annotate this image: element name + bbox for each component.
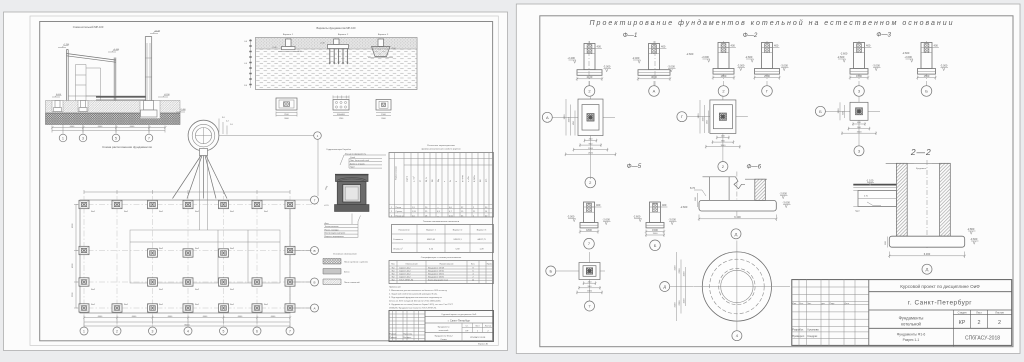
foundation elevation Ф-1 right <box>632 41 676 96</box>
svg-text:—: — <box>437 207 439 209</box>
svg-text:400: 400 <box>596 203 601 207</box>
plan row2 symbols <box>79 246 295 254</box>
svg-text:Грунт: Грунт <box>855 211 860 213</box>
svg-text:2: 2 <box>998 320 1001 326</box>
chimney plan circles <box>188 120 219 151</box>
svg-text:2100: 2100 <box>588 153 594 155</box>
svg-text:г. Санкт-Петербург: г. Санкт-Петербург <box>908 299 972 307</box>
plan bottom bubbles <box>80 327 294 335</box>
svg-text:-2.600: -2.600 <box>686 52 694 56</box>
svg-text:Д: Д <box>735 231 738 236</box>
svg-text:-2.600: -2.600 <box>633 215 641 219</box>
foundation elevation Ф-2 left <box>702 41 746 96</box>
notes <box>389 287 454 310</box>
svg-text:Песок намывной: Песок намывной <box>344 281 360 284</box>
svg-text:Куканова: Куканова <box>404 334 413 336</box>
svg-text:Серия 1.412: Серия 1.412 <box>399 268 411 270</box>
svg-text:-1.100: -1.100 <box>866 179 874 183</box>
elevation mark right ground <box>158 94 171 97</box>
svg-text:Фундамент 1Ф15: Фундамент 1Ф15 <box>428 270 445 273</box>
label 2-2 <box>910 147 932 157</box>
svg-text:1500: 1500 <box>684 271 686 277</box>
foundation plan Ф-5 plan <box>546 252 605 311</box>
svg-text:Изм.: Изм. <box>792 303 797 305</box>
svg-text:Грунт: Грунт <box>350 167 355 169</box>
svg-text:-2.600: -2.600 <box>702 55 710 59</box>
title block right sheet <box>792 280 1012 347</box>
plan grid verticals <box>84 196 290 330</box>
label F1 <box>623 32 638 39</box>
variant1 foundation <box>272 39 302 53</box>
plan axis line from chimney <box>317 139 319 196</box>
caption variants <box>317 26 356 30</box>
svg-text:Ф—1: Ф—1 <box>623 32 638 39</box>
svg-text:-3.000: -3.000 <box>567 215 575 219</box>
plan row3 symbols <box>148 249 229 257</box>
svg-text:КР: КР <box>959 320 966 326</box>
building right wall <box>114 58 116 101</box>
svg-text:Листов: Листов <box>485 326 492 328</box>
svg-text:7: 7 <box>289 329 291 333</box>
svg-text:Ст.: Ст. <box>466 326 469 328</box>
svg-text:Объем, м³: Объем, м³ <box>393 248 403 251</box>
svg-text:1000: 1000 <box>569 117 571 123</box>
plan bottom dims <box>83 316 291 328</box>
svg-text:Фундамент 2Ф21: Фундамент 2Ф21 <box>428 273 445 276</box>
elevation mark roof right <box>108 49 120 52</box>
svg-text:Варианты фундаментов МР-100: Варианты фундаментов МР-100 <box>317 26 356 30</box>
svg-text:Фундамент 2Ф25: Фундамент 2Ф25 <box>428 276 445 279</box>
svg-text:400: 400 <box>662 203 667 207</box>
extra elevation marks <box>680 51 910 209</box>
detail plan 2 <box>333 96 349 121</box>
variant labels <box>283 34 389 36</box>
svg-text:Вариант 2: Вариант 2 <box>338 34 349 36</box>
svg-text:Песок суглинок с щебнем: Песок суглинок с щебнем <box>344 262 368 264</box>
svg-text:Серия 1.412: Серия 1.412 <box>399 274 411 276</box>
svg-text:2100: 2100 <box>587 75 593 79</box>
svg-text:-3.000: -3.000 <box>940 64 948 68</box>
svg-text:Вариант 3: Вариант 3 <box>378 34 389 36</box>
svg-text:-2.800: -2.800 <box>780 192 788 196</box>
svg-text:Провер.: Провер. <box>390 337 398 339</box>
plan Ф-3 left dims <box>838 102 845 120</box>
svg-text:3100: 3100 <box>675 265 677 271</box>
svg-text:-2.800: -2.800 <box>967 227 975 231</box>
detail plan 3 <box>376 100 391 121</box>
svg-text:1500: 1500 <box>653 233 659 235</box>
main title <box>589 19 954 27</box>
svg-text:-2.600: -2.600 <box>603 218 611 222</box>
svg-text:-2.600: -2.600 <box>905 55 913 59</box>
svg-text:Разработ.: Разработ. <box>792 328 804 332</box>
svg-text:Б: Б <box>549 269 552 274</box>
plan top dim line <box>84 190 290 194</box>
svg-text:бетона кл. В7,5 толщиной 10: бетона кл. В7,5 толщиной 100 мм по СП 22… <box>389 300 441 303</box>
chimney pedestal <box>200 149 208 156</box>
svg-text:Б: Б <box>925 89 928 94</box>
svg-text:Схема котельной МР-100: Схема котельной МР-100 <box>73 25 104 29</box>
axis bubble 3 section <box>112 125 120 142</box>
ground hatch light band <box>46 101 181 114</box>
svg-text:-2.400: -2.400 <box>180 109 187 111</box>
svg-text:49015,45: 49015,45 <box>427 239 436 241</box>
svg-text:-2.600: -2.600 <box>837 55 845 59</box>
axis line to bubble <box>219 132 321 140</box>
soils table header <box>421 145 461 151</box>
pedestal photo base <box>335 205 370 225</box>
foundation elevation Ф-5 right <box>633 41 677 251</box>
svg-text:Стадия: Стадия <box>958 311 967 315</box>
svg-text:400: 400 <box>774 44 779 48</box>
svg-text:0.000: 0.000 <box>56 94 62 96</box>
svg-text:Балка фундаментная: Балка фундаментная <box>428 278 448 281</box>
svg-text:Лист бетонный слой: Лист бетонный слой <box>350 159 369 162</box>
svg-text:Серия 1.412: Серия 1.412 <box>399 277 411 279</box>
soil box <box>256 38 418 90</box>
svg-text:Вариант 2: Вариант 2 <box>453 230 463 232</box>
svg-text:Насос, выводы: Насос, выводы <box>325 229 340 231</box>
svg-text:5: 5 <box>223 329 225 333</box>
svg-text:3: 3 <box>152 329 154 333</box>
svg-text:-3.600: -3.600 <box>970 237 978 241</box>
svg-text:Б: Б <box>654 243 657 248</box>
svg-text:W, %: W, % <box>426 177 428 182</box>
svg-text:7: 7 <box>148 136 150 140</box>
svg-text:+24.00: +24.00 <box>154 30 161 32</box>
svg-text:физико-механических свойств: физико-механических свойств грунтов <box>421 148 461 151</box>
svg-text:Верхняя маркировка: Верхняя маркировка <box>325 236 345 238</box>
svg-text:Прим.: Прим. <box>487 264 493 266</box>
svg-text:2300: 2300 <box>679 300 681 306</box>
format note <box>478 343 489 346</box>
foundation pit left <box>52 101 63 112</box>
svg-text:Серия 1.412: Серия 1.412 <box>399 271 411 273</box>
plan row4 symbols <box>79 278 295 286</box>
svg-text:ρ, т/м³: ρ, т/м³ <box>413 176 416 182</box>
variant2 foundation piles <box>320 39 349 65</box>
svg-text:2: 2 <box>116 329 118 333</box>
svg-text:3100: 3100 <box>675 302 677 308</box>
svg-text:1800: 1800 <box>698 113 700 119</box>
section Ф-6 wall footing <box>690 172 791 239</box>
plan Ф-1 left dims <box>564 99 575 136</box>
svg-text:Щебень втрамб.: Щебень втрамб. <box>350 163 366 165</box>
svg-text:Стоимость: Стоимость <box>393 239 403 241</box>
svg-text:1500: 1500 <box>684 298 686 304</box>
foundation elevation Ф-3 right <box>905 41 949 96</box>
svg-text:Куканова: Куканова <box>808 328 820 332</box>
svg-text:Формат А1: Формат А1 <box>478 343 489 346</box>
svg-text:Теплоноситель: Теплоноситель <box>325 226 339 228</box>
plan row1 symbols <box>79 200 295 208</box>
svg-text:1500: 1500 <box>652 228 658 232</box>
svg-text:—: — <box>437 215 439 217</box>
flue legs <box>173 156 228 231</box>
svg-text:4: 4 <box>187 329 189 333</box>
svg-text:Фундаменты Ф1-6: Фундаменты Ф1-6 <box>897 333 926 337</box>
svg-text:1000: 1000 <box>703 116 705 122</box>
svg-text:котельной: котельной <box>901 322 921 327</box>
svg-text:1800: 1800 <box>586 228 592 232</box>
plan grid horizontals <box>76 205 318 309</box>
ground hatch dense band <box>46 113 181 125</box>
variant3 foundation pad <box>368 39 396 58</box>
svg-text:φ, град: φ, град <box>462 175 464 182</box>
svg-text:242021,1: 242021,1 <box>453 239 462 241</box>
svg-text:1800: 1800 <box>721 74 727 78</box>
svg-text:-3.000: -3.000 <box>669 218 677 222</box>
svg-text:8.70: 8.70 <box>690 186 696 190</box>
svg-text:Показатели: Показатели <box>399 230 410 232</box>
svg-text:2: 2 <box>978 320 981 326</box>
svg-text:Условные обозначения: Условные обозначения <box>333 254 357 256</box>
building left wall <box>67 50 69 101</box>
svg-text:Ф—5: Ф—5 <box>627 163 642 170</box>
svg-text:Ф—2: Ф—2 <box>743 32 758 39</box>
svg-text:-3.000: -3.000 <box>737 64 745 68</box>
svg-text:СПбГАСУ-2018: СПбГАСУ-2018 <box>470 336 486 339</box>
svg-text:2500: 2500 <box>764 74 770 78</box>
foundation plan Ф-1 plan <box>542 96 616 188</box>
svg-text:г. Санкт-Петербург: г. Санкт-Петербург <box>448 319 470 323</box>
svg-text:Sr: Sr <box>450 180 452 182</box>
svg-text:Фундамент: Фундамент <box>916 167 926 170</box>
svg-text:Ф—3: Ф—3 <box>876 32 891 39</box>
svg-text:-3.000: -3.000 <box>781 64 789 68</box>
svg-text:+7.200: +7.200 <box>63 44 70 46</box>
elevation mark chimney top <box>150 30 161 33</box>
svg-text:2—2: 2—2 <box>910 147 932 157</box>
svg-text:Проверил: Проверил <box>792 334 804 338</box>
svg-text:-3.000: -3.000 <box>603 65 611 69</box>
svg-text:А: А <box>546 115 549 120</box>
svg-text:3000: 3000 <box>651 75 657 79</box>
svg-text:-2.600: -2.600 <box>680 205 688 209</box>
svg-text:Подп.: Подп. <box>830 303 836 305</box>
svg-text:-2.600: -2.600 <box>840 52 848 56</box>
svg-text:3: 3 <box>82 136 84 140</box>
chimney shaft <box>145 37 151 101</box>
svg-text:Кондрат.: Кондрат. <box>808 334 819 338</box>
svg-text:1800: 1800 <box>587 291 593 293</box>
label F2 <box>743 32 758 39</box>
elevation mark +7.2 <box>58 44 70 47</box>
svg-text:Курсовой проект по дисципли: Курсовой проект по дисциплине ОиФ <box>900 283 980 289</box>
svg-text:-0.150: -0.150 <box>164 94 171 96</box>
axis bubble 4 section <box>145 125 153 142</box>
svg-text:400: 400 <box>866 44 871 48</box>
svg-text:400: 400 <box>661 45 666 49</box>
foundation pit mid <box>78 101 88 112</box>
plan Ф-2 left dims <box>698 100 709 134</box>
svg-text:-3.600: -3.600 <box>783 201 791 205</box>
elevation mark zero left <box>52 94 62 97</box>
svg-text:Спецификация к схемам распо: Спецификация к схемам расположения <box>421 256 462 259</box>
svg-text:Суглин.: Суглин. <box>396 211 404 213</box>
svg-text:13580-85. Фундаментные балки: 13580-85. Фундаментные балки по ГОСТ 287… <box>389 307 437 310</box>
plan right bubbles <box>290 196 319 312</box>
label Ф-6 <box>747 164 762 171</box>
svg-text:усл.: усл. <box>486 178 488 182</box>
svg-text:Обозначение: Обозначение <box>405 264 418 266</box>
plan inner boiler room <box>130 230 280 283</box>
svg-text:6.300: 6.300 <box>734 215 741 219</box>
svg-text:Фасад по фундаменту: Фасад по фундаменту <box>345 153 366 156</box>
svg-text:6.300: 6.300 <box>924 252 931 256</box>
foundation elevation Ф-2 right <box>745 41 789 96</box>
svg-text:Д: Д <box>663 284 666 289</box>
svg-text:Поз.: Поз. <box>391 264 395 266</box>
svg-text:1500: 1500 <box>588 148 594 150</box>
svg-text:Вентиляционный узел: Вентиляционный узел <box>325 232 346 235</box>
legend sand <box>323 279 360 285</box>
elevation mark right deep <box>176 109 187 112</box>
specification table <box>389 256 494 284</box>
detail plan 1 <box>276 98 297 120</box>
svg-text:Б: Б <box>314 280 316 284</box>
svg-text:грунта: грунта <box>407 175 409 182</box>
svg-text:-2.400: -2.400 <box>632 56 640 60</box>
svg-text:ГОСТ 28737-90: ГОСТ 28737-90 <box>399 279 414 281</box>
tech-economic table <box>392 221 494 253</box>
svg-text:E, МПа: E, МПа <box>474 174 476 182</box>
svg-text:400: 400 <box>597 45 602 49</box>
svg-text:Листов: Листов <box>995 311 1004 315</box>
foundation plan Ф-2 plan <box>677 96 748 172</box>
svg-text:1500: 1500 <box>856 74 862 78</box>
svg-text:Песок ср.: Песок ср. <box>396 215 405 217</box>
svg-text:Слой: Слой <box>350 156 355 159</box>
svg-text:Разраб.: Разраб. <box>390 334 398 336</box>
svg-text:Расчетные характеристики: Расчетные характеристики <box>427 145 455 147</box>
svg-text:Фундаменты: Фундаменты <box>438 326 450 329</box>
svg-text:Схема расположения фундаментов: Схема расположения фундаментов <box>102 145 152 149</box>
waterproofing label list <box>327 149 387 169</box>
axis bubble 2 section <box>79 125 87 142</box>
svg-text:Бетон: Бетон <box>344 272 349 274</box>
depth scale <box>244 39 251 88</box>
svg-text:1500: 1500 <box>838 108 840 114</box>
svg-text:36000: 36000 <box>184 325 190 327</box>
svg-text:Технико-экономические показат: Технико-экономические показатели <box>423 221 460 223</box>
axis bubble 1 section <box>59 125 67 142</box>
svg-text:котельной: котельной <box>439 329 448 332</box>
section dim line <box>51 126 167 133</box>
svg-text:Наименование: Наименование <box>396 165 398 180</box>
svg-text:2. Защитный слой бетона раб: 2. Защитный слой бетона рабочей арматуры… <box>389 293 438 296</box>
svg-text:Лист: Лист <box>475 326 479 328</box>
svg-text:Кол.: Кол. <box>800 303 804 305</box>
svg-text:Кол.: Кол. <box>471 264 475 266</box>
svg-text:Схемы: Схемы <box>440 339 447 341</box>
svg-text:Курсовой проект по дисципли: Курсовой проект по дисциплине ОиФ <box>442 313 477 316</box>
legend beton <box>323 269 349 275</box>
svg-text:с, кПа: с, кПа <box>468 176 470 182</box>
plan left dims <box>72 205 78 309</box>
svg-text:5: 5 <box>115 136 117 140</box>
svg-text:1500: 1500 <box>857 131 863 133</box>
svg-text:44617,71: 44617,71 <box>477 239 486 241</box>
floor slab <box>68 96 146 101</box>
svg-text:3. Под подошвой фундаментов: 3. Под подошвой фундаментов выполнить по… <box>389 296 442 299</box>
foundation plan Ф-3 plan <box>815 96 880 156</box>
title block left sheet <box>389 311 494 342</box>
label Ф-5 <box>627 163 642 170</box>
svg-text:Наименование: Наименование <box>440 264 455 266</box>
ring foundation plan <box>660 241 790 341</box>
caption boiler scheme <box>73 25 104 29</box>
pedestal photo body <box>324 175 369 208</box>
svg-text:1. Монолитные участки выполн: 1. Монолитные участки выполнять из бетон… <box>389 290 448 292</box>
svg-text:А: А <box>653 89 656 94</box>
svg-text:Лист: Лист <box>807 303 811 305</box>
svg-text:док.: док. <box>822 303 826 305</box>
foundation elevation Ф-5 left <box>567 41 611 249</box>
interior partitions <box>76 65 101 101</box>
left sheet paper <box>4 12 508 351</box>
svg-text:400: 400 <box>934 44 939 48</box>
svg-text:800x800: 800x800 <box>337 114 346 116</box>
svg-text:Б: Б <box>819 109 822 114</box>
svg-text:СПбГАСУ-2018: СПбГАСУ-2018 <box>965 336 1000 342</box>
svg-text:Проектирование фундаментов к: Проектирование фундаментов котельной на … <box>589 19 954 27</box>
svg-text:Гидроизоляция Коробка: Гидроизоляция Коробка <box>327 149 352 151</box>
foundation elevation Ф-1 left <box>568 41 612 96</box>
svg-text:Фундаменты Фм1-2: Фундаменты Фм1-2 <box>434 335 453 338</box>
svg-text:+6.000: +6.000 <box>113 49 120 51</box>
svg-text:1500: 1500 <box>564 114 566 120</box>
soils table grid <box>389 153 494 218</box>
svg-text:-2.600: -2.600 <box>745 55 753 59</box>
svg-text:Кондрат.: Кондрат. <box>404 337 412 339</box>
svg-text:1: 1 <box>83 329 85 333</box>
svg-text:6: 6 <box>256 329 258 333</box>
chimney foundation pit <box>140 101 160 119</box>
svg-text:2300: 2300 <box>679 268 681 274</box>
svg-text:Фундамент 1Ф18: Фундамент 1Ф18 <box>428 267 445 270</box>
svg-text:В: В <box>313 249 315 253</box>
svg-text:Вариант 3: Вариант 3 <box>477 230 487 232</box>
symbol labels <box>91 210 269 306</box>
svg-text:-3.000: -3.000 <box>668 65 676 69</box>
svg-text:Азот: Азот <box>325 222 329 225</box>
svg-text:Разрез 1-1: Разрез 1-1 <box>903 338 920 342</box>
svg-text:А: А <box>313 306 315 310</box>
svg-text:1: 1 <box>62 136 64 140</box>
chimney plan dims <box>219 117 234 135</box>
svg-text:ρs: ρs <box>420 180 422 182</box>
section 2-2 <box>853 160 978 274</box>
svg-text:-2.600: -2.600 <box>902 51 910 55</box>
svg-text:400: 400 <box>731 44 736 48</box>
foundation elevation Ф-3 left <box>837 41 881 96</box>
plan row5 symbols <box>79 304 295 312</box>
right sheet paper <box>516 4 1020 354</box>
roof slope <box>67 54 116 63</box>
svg-text:-2.400: -2.400 <box>568 56 576 60</box>
svg-text:-3.000: -3.000 <box>873 64 881 68</box>
legend title <box>323 254 368 265</box>
label F3 <box>876 32 891 39</box>
svg-text:Вариант 1: Вариант 1 <box>283 34 294 36</box>
svg-text:Фундаменты: Фундаменты <box>899 316 924 321</box>
callout list <box>324 216 361 238</box>
svg-text:Песок: Песок <box>396 207 402 209</box>
svg-text:Примечание:: Примечание: <box>389 287 402 289</box>
plan outline <box>80 200 290 313</box>
svg-text:1800: 1800 <box>720 145 726 147</box>
